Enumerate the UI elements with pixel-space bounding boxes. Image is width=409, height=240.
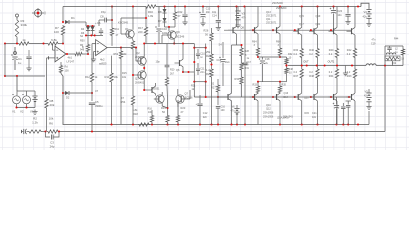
resistor R27: [211, 79, 220, 98]
svg-text:2SC5200: 2SC5200: [272, 1, 283, 5]
transistor Q6: [175, 42, 195, 73]
svg-text:R18: R18: [133, 112, 138, 116]
source V3: [27, 91, 38, 114]
wire left rail: [4, 44, 6, 78]
svg-text:47n: 47n: [372, 39, 377, 42]
node rail dots: [132, 5, 359, 7]
svg-text:R33: R33: [235, 77, 240, 81]
svg-text:R54: R54: [121, 100, 126, 104]
svg-text:R13: R13: [105, 75, 110, 79]
svg-text:R25: R25: [206, 72, 211, 76]
label Q15 Q17: [299, 15, 304, 26]
resistor R65: [253, 82, 260, 94]
svg-text:C8: C8: [100, 15, 104, 19]
svg-text:Q16: Q16: [284, 92, 289, 95]
svg-text:C18: C18: [265, 58, 270, 61]
svg-text:R42: R42: [347, 49, 352, 52]
svg-text:R30: R30: [294, 49, 299, 52]
svg-text:C20: C20: [338, 10, 343, 13]
transistor Q9: [166, 30, 185, 39]
wire vas left: [62, 76, 64, 122]
diode D5: [81, 27, 95, 36]
resistor R64a: [252, 34, 260, 58]
ground G6: [200, 21, 205, 26]
wire feedback: [27, 66, 386, 132]
svg-text:6.8k: 6.8k: [51, 38, 57, 42]
svg-text:C14: C14: [212, 15, 217, 18]
capacitor C16: [217, 42, 231, 86]
svg-text:V4: V4: [364, 10, 368, 14]
svg-text:LF147: LF147: [67, 60, 75, 64]
svg-text:4b1: 4b1: [68, 56, 73, 60]
wire Q9 leads: [162, 35, 194, 45]
capacitor C9: [156, 44, 170, 77]
transistor Q8: [228, 7, 244, 65]
transistor Q10: [250, 93, 274, 124]
svg-text:1k: 1k: [22, 38, 26, 42]
svg-text:R17: R17: [138, 26, 143, 30]
svg-text:3300u: 3300u: [95, 104, 103, 108]
svg-text:2SA1943: 2SA1943: [283, 116, 294, 119]
svg-text:22n: 22n: [200, 71, 205, 74]
svg-text:C16: C16: [217, 59, 222, 62]
svg-text:R33: R33: [253, 84, 258, 87]
svg-text:R46: R46: [309, 49, 314, 52]
svg-text:R52: R52: [114, 53, 119, 56]
source V2: [17, 91, 31, 114]
svg-text:KSC945: KSC945: [118, 21, 129, 25]
resistor R19: [161, 100, 169, 125]
label 2SC5200b: [276, 7, 287, 10]
svg-text:20k: 20k: [50, 103, 55, 107]
capacitor C23: [341, 103, 345, 125]
svg-text:0.2: 0.2: [294, 71, 298, 74]
svg-text:0.2: 0.2: [329, 71, 333, 74]
svg-text:Q1: Q1: [125, 27, 129, 31]
label S4: [219, 43, 223, 47]
resistor R1: [18, 38, 30, 45]
svg-text:V2: V2: [20, 110, 24, 114]
wire npn base bus: [224, 29, 352, 31]
node FB1: [44, 130, 46, 132]
battery V4: [363, 8, 372, 26]
transistor Q2: [135, 51, 146, 65]
svg-text:1.8k: 1.8k: [148, 14, 154, 18]
svg-text:R35: R35: [282, 84, 287, 87]
svg-text:S4: S4: [219, 43, 223, 47]
transistor Q17: [309, 7, 319, 66]
wire Q2: [143, 42, 145, 70]
resistor R17: [138, 7, 148, 38]
wire top rail: [63, 3, 369, 8]
node bus dots: [285, 64, 386, 66]
resistor R25: [206, 68, 213, 125]
capacitor C18: [259, 57, 270, 82]
svg-text:D2: D2: [66, 96, 70, 100]
svg-text:47v: 47v: [242, 16, 247, 20]
resistor R12: [82, 35, 90, 54]
svg-text:D15: D15: [305, 112, 310, 115]
resistor R13: [105, 56, 119, 125]
wire emitters top: [258, 56, 287, 58]
wire U2 out: [107, 47, 137, 61]
svg-text:R48: R48: [309, 75, 314, 78]
svg-text:R16: R16: [148, 10, 153, 14]
wire V branch: [16, 76, 18, 91]
capacitor C3: [46, 132, 60, 149]
wire bottom rail: [63, 122, 369, 125]
svg-text:0.2: 0.2: [309, 53, 313, 56]
label OUT1: [328, 61, 335, 64]
svg-text:10k: 10k: [49, 117, 54, 121]
svg-text:100: 100: [65, 70, 70, 73]
svg-text:2SC5071: 2SC5071: [266, 22, 277, 25]
svg-text:R40: R40: [329, 49, 334, 52]
wire emitters bottom: [257, 81, 281, 83]
svg-text:BC546: BC546: [176, 35, 185, 39]
ground G3: [91, 57, 96, 62]
svg-text:D1: D1: [71, 16, 75, 20]
svg-text:Q21: Q21: [316, 23, 321, 26]
svg-text:22n: 22n: [203, 116, 208, 119]
capacitor C1: [11, 47, 22, 70]
capacitor C14: [212, 7, 221, 26]
svg-text:Q9: Q9: [176, 30, 180, 34]
resistor R33: [235, 76, 244, 97]
diode D8: [158, 13, 167, 27]
node rail2 dots: [110, 123, 359, 125]
svg-text:R22: R22: [178, 10, 183, 14]
svg-text:330k: 330k: [21, 23, 28, 27]
resistor R7: [54, 25, 65, 44]
inductor L2: [386, 48, 398, 55]
svg-text:R23: R23: [181, 106, 186, 110]
svg-text:27: 27: [178, 14, 181, 18]
resistor R3: [15, 14, 27, 44]
svg-text:V1: V1: [12, 110, 16, 114]
svg-text:2SA1956: 2SA1956: [263, 112, 274, 115]
resistor R26: [204, 28, 214, 50]
svg-text:2SC5200: 2SC5200: [276, 7, 287, 10]
transistor Q4: [152, 92, 168, 108]
capacitor C22: [345, 7, 350, 25]
resistor R21: [148, 108, 154, 125]
svg-text:Q7: Q7: [185, 92, 189, 96]
wire U2 minus: [92, 44, 96, 54]
label Q20 grp: [304, 97, 310, 116]
resistor R6: [47, 117, 59, 134]
transistor Q10d: [218, 64, 233, 126]
ground G5: [182, 7, 187, 25]
svg-text:Q20: Q20: [304, 97, 309, 100]
wire U1 out: [66, 53, 74, 55]
resistor R45: [385, 56, 405, 66]
svg-text:R47: R47: [294, 75, 299, 78]
diode D4: [81, 22, 95, 31]
svg-text:2k7: 2k7: [170, 73, 175, 76]
capacitor C21: [312, 97, 339, 125]
diode D2: [62, 91, 93, 100]
capacitor C17: [242, 7, 251, 125]
wire mid verticals: [194, 44, 205, 98]
resistor R52: [114, 48, 128, 125]
transistor Q5: [147, 83, 160, 96]
ground G7: [216, 26, 221, 31]
resistor R8: [45, 58, 55, 132]
capacitor C20: [330, 7, 343, 31]
node A: [4, 42, 64, 44]
svg-text:+: +: [196, 102, 198, 106]
transistor Q12: [272, 93, 289, 124]
transistor Q16: [293, 66, 303, 125]
svg-text:1u: 1u: [18, 61, 22, 65]
transistor Q1: [118, 21, 134, 39]
svg-text:Q15: Q15: [299, 15, 304, 18]
resistor R10: [59, 62, 69, 76]
capacitor C10b: [196, 49, 205, 59]
resistor R18: [133, 108, 151, 126]
wire U1 inputs: [47, 44, 56, 60]
capacitor C12: [196, 95, 208, 125]
svg-text:Q19: Q19: [316, 15, 321, 18]
svg-text:0.2: 0.2: [329, 53, 333, 56]
node FB2: [58, 130, 60, 132]
svg-text:C17: C17: [247, 61, 252, 64]
svg-text:R20: R20: [170, 69, 175, 72]
capacitor C2: [22, 129, 27, 134]
capacitor C4: [26, 50, 31, 66]
transistor Q11: [272, 1, 284, 34]
transistor Q13: [250, 7, 278, 35]
svg-text:100: 100: [221, 109, 226, 112]
wire Q9 node: [165, 26, 176, 31]
svg-text:Q2: Q2: [136, 51, 140, 55]
svg-text:OUT1: OUT1: [328, 61, 335, 64]
svg-text:25k: 25k: [206, 50, 211, 54]
transistor Q3: [135, 71, 146, 85]
svg-text:10n: 10n: [338, 14, 343, 17]
svg-text:0.2: 0.2: [309, 71, 313, 74]
battery V3b: [235, 7, 246, 28]
diode D7: [158, 7, 167, 15]
svg-text:10n: 10n: [206, 11, 211, 14]
capacitor C10: [155, 7, 168, 36]
source V1: [12, 91, 21, 114]
svg-text:R50: R50: [80, 40, 85, 43]
svg-text:R12: R12: [85, 75, 90, 79]
resistor R20: [165, 69, 175, 101]
resistor R11: [110, 27, 119, 46]
svg-text:2N5401: 2N5401: [135, 81, 145, 85]
op-amp U2: [96, 40, 108, 66]
label Q19 Q21: [316, 15, 321, 26]
battery V6: [231, 105, 240, 125]
resistor R44: [394, 38, 405, 66]
svg-text:OUT: OUT: [303, 61, 309, 64]
svg-text:10k: 10k: [114, 75, 119, 79]
resistor R23: [176, 100, 186, 125]
svg-text:4b2: 4b2: [100, 58, 105, 62]
resistor R54: [121, 95, 135, 125]
transistor Q21: [347, 7, 357, 66]
resistor R28: [240, 44, 250, 62]
svg-text:C21: C21: [312, 112, 317, 115]
svg-text:D8: D8: [158, 10, 162, 14]
svg-text:0.2: 0.2: [294, 53, 298, 56]
svg-text:0.2: 0.2: [347, 71, 351, 74]
ground G2: [32, 110, 37, 115]
resistor R2: [28, 117, 42, 134]
svg-text:2u1: 2u1: [226, 61, 231, 64]
power crosshair J1: [32, 8, 45, 18]
transistor Q22: [347, 66, 357, 125]
wire R11 col: [111, 5, 113, 27]
resistor R66: [278, 82, 286, 94]
svg-text:100: 100: [54, 30, 59, 34]
resistor R31: [240, 62, 250, 76]
svg-text:D7: D7: [158, 19, 162, 23]
svg-text:C19: C19: [371, 43, 376, 46]
wire right col: [385, 46, 403, 66]
ground G1: [26, 66, 31, 71]
svg-text:1.2k: 1.2k: [32, 121, 38, 125]
svg-text:R26: R26: [204, 29, 209, 33]
svg-text:C12: C12: [203, 112, 208, 115]
resistor R32: [285, 53, 293, 67]
svg-text:220: 220: [138, 30, 143, 34]
wire V bottoms: [15, 102, 35, 109]
transistor Q18: [309, 66, 319, 125]
svg-text:Q12: Q12: [266, 108, 271, 111]
svg-text:1.2k: 1.2k: [206, 68, 212, 72]
wire diode bottoms: [85, 31, 103, 37]
battery V5: [364, 89, 372, 125]
capacitor C19: [371, 39, 392, 53]
svg-text:V5: V5: [365, 90, 369, 94]
svg-text:C5: C5: [95, 100, 99, 104]
transistor Q7: [176, 89, 193, 107]
svg-text:15p: 15p: [101, 10, 106, 14]
resistor R15: [122, 40, 135, 95]
svg-text:R11: R11: [115, 28, 120, 31]
svg-text:R15: R15: [122, 72, 127, 75]
svg-text:R27: R27: [211, 87, 216, 90]
svg-text:47: 47: [95, 89, 98, 93]
svg-text:10n: 10n: [312, 116, 317, 119]
wire Q1: [121, 7, 133, 41]
svg-text:ad825: ad825: [99, 62, 107, 66]
svg-text:+ C6: + C6: [95, 22, 101, 25]
wire U2 plus: [94, 52, 96, 57]
svg-text:R41: R41: [329, 75, 334, 78]
diode D1: [62, 7, 86, 25]
resistor R16: [145, 5, 157, 18]
wire C5 col: [91, 54, 93, 72]
wire y76: [5, 75, 45, 77]
box bias: [193, 47, 207, 83]
resistor R64b: [276, 34, 282, 58]
wire input top: [5, 43, 63, 45]
wire bias node: [121, 17, 162, 45]
resistor R24: [206, 50, 213, 68]
svg-text:24p: 24p: [50, 145, 55, 149]
svg-text:2N5401: 2N5401: [135, 55, 145, 59]
transistor Q19: [329, 7, 339, 66]
transistor Q20: [329, 66, 339, 125]
label R21b: [191, 85, 196, 92]
svg-text:Q17: Q17: [299, 23, 304, 26]
svg-text:R44: R44: [394, 38, 399, 41]
resistor R22: [173, 7, 183, 28]
resistor R9: [74, 35, 89, 56]
inductor L1: [366, 64, 376, 66]
capacitor C6: [95, 22, 103, 35]
svg-text:R43: R43: [347, 75, 352, 78]
svg-text:2N5551: 2N5551: [151, 88, 160, 91]
wire out bus: [288, 65, 403, 67]
label OUT: [303, 61, 309, 64]
svg-text:100: 100: [148, 111, 153, 114]
capacitor C8: [99, 10, 113, 26]
wire D4 top: [87, 44, 89, 46]
svg-text:2SA1956: 2SA1956: [263, 116, 274, 119]
transistor Q15: [293, 7, 303, 66]
svg-text:10p: 10p: [156, 61, 161, 64]
svg-text:C10: C10: [162, 27, 167, 31]
capacitor C15: [216, 97, 226, 126]
op-amp U1: [55, 46, 75, 63]
svg-text:R6: R6: [49, 122, 53, 126]
svg-text:Q3: Q3: [135, 77, 139, 81]
svg-text:R24: R24: [206, 54, 211, 58]
svg-text:D14: D14: [284, 96, 289, 99]
svg-text:42v: 42v: [363, 15, 368, 19]
capacitor C5: [89, 89, 103, 133]
svg-text:1.8k: 1.8k: [133, 108, 139, 112]
wire pnp base bus: [194, 96, 351, 98]
resistor R12b: [85, 72, 98, 101]
capacitor C13: [199, 7, 211, 22]
ground G8: [343, 66, 348, 76]
resistor R5: [47, 38, 59, 45]
label Q16 grp: [283, 92, 294, 119]
svg-text:0.2: 0.2: [347, 53, 351, 56]
capacitor C24: [346, 101, 351, 125]
capacitor C11: [196, 63, 205, 75]
resistor R49: [280, 66, 294, 82]
wire Q3: [132, 74, 147, 91]
